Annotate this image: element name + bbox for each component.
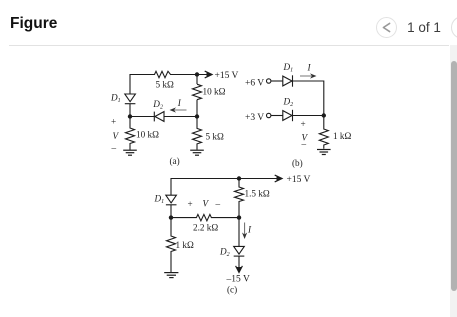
svg-text:(a): (a): [170, 156, 180, 166]
resistor 1k (b): [319, 116, 328, 149]
svg-text:I: I: [177, 98, 182, 108]
resistor 1.5k (c): [235, 179, 244, 218]
node dot c left: [169, 215, 173, 219]
diode D2 (a): [154, 112, 164, 122]
ground (a left): [123, 150, 137, 155]
wire a: right branch upper: [196, 75, 198, 85]
resistor 10k right vertical: [193, 84, 202, 100]
node dot c right: [237, 215, 241, 219]
wire b row1: [271, 80, 283, 82]
wire a: top to +15V arrow: [172, 74, 209, 76]
wire a: right branch to middle node: [196, 100, 198, 117]
svg-text:–: –: [215, 199, 221, 209]
wire c: D2 to -15V arrow: [238, 256, 240, 269]
svg-text:–15 V: –15 V: [226, 275, 250, 285]
+15V arrowhead (c): [275, 175, 282, 182]
resistor R 5k horizontal: [153, 71, 172, 77]
current arrow I (a): [170, 107, 187, 112]
current arrow I (c): [242, 223, 247, 240]
svg-text:V: V: [113, 131, 120, 141]
scrollbar thumb: [451, 61, 457, 291]
svg-text:D2: D2: [219, 247, 230, 259]
node dot a right middle: [195, 114, 199, 118]
labels circuit a: [110, 71, 239, 166]
wire a: middle horizontal left part: [130, 116, 154, 118]
svg-text:+3 V: +3 V: [245, 113, 264, 123]
next button (clipped at right edge): [451, 16, 457, 39]
svg-text:D1: D1: [154, 194, 165, 206]
wire c: top: [171, 179, 279, 196]
svg-text:–: –: [111, 143, 117, 153]
node dot a left middle: [128, 114, 132, 118]
diode D1 (b): [283, 76, 292, 86]
svg-text:+: +: [301, 119, 306, 129]
ground (c): [164, 273, 178, 278]
svg-text:+15 V: +15 V: [287, 175, 311, 185]
svg-text:5 kΩ: 5 kΩ: [156, 80, 174, 90]
resistor 5k right lower vertical: [193, 117, 202, 150]
ground (a right): [190, 150, 204, 155]
page counter: [406, 20, 442, 35]
wire b row2: [271, 115, 283, 117]
svg-text:10 kΩ: 10 kΩ: [136, 130, 159, 140]
svg-text:+: +: [111, 117, 116, 127]
header title: [10, 15, 57, 33]
svg-text:D1: D1: [283, 62, 294, 74]
-15V arrowhead (c): [236, 266, 243, 273]
prev button: [376, 17, 397, 38]
terminal +3V: [267, 113, 271, 117]
left lower branch: resistor 1k (c): [167, 218, 176, 273]
node dot b: [322, 113, 326, 117]
svg-text:I: I: [247, 225, 252, 235]
+15V arrowhead (a): [205, 71, 212, 78]
diode D2 (c): [234, 246, 245, 254]
labels circuit b: [245, 62, 351, 168]
svg-text:–: –: [301, 139, 307, 149]
svg-text:1 kΩ: 1 kΩ: [333, 131, 351, 141]
diode D1 (a): [125, 94, 136, 117]
svg-text:5 kΩ: 5 kΩ: [206, 132, 224, 142]
labels circuit c: [154, 175, 311, 295]
svg-text:+6 V: +6 V: [245, 79, 264, 89]
svg-text:2.2 kΩ: 2.2 kΩ: [193, 222, 218, 232]
svg-text:(c): (c): [227, 285, 237, 295]
diode D1 (c): [166, 195, 177, 203]
wire b row1 right + corner down: [293, 81, 324, 116]
svg-text:V: V: [203, 199, 210, 209]
node dot a top: [195, 72, 199, 76]
svg-text:1.5 kΩ: 1.5 kΩ: [245, 189, 270, 199]
svg-text:(b): (b): [292, 158, 303, 168]
node dot c top: [237, 176, 241, 180]
scrollbar track: [450, 45, 457, 317]
header divider: [9, 45, 449, 47]
svg-text:I: I: [307, 63, 312, 73]
ground (b): [317, 150, 331, 155]
current arrow I (b): [300, 73, 317, 78]
terminal +6V: [267, 79, 271, 83]
wire c: middle row + resistor 2.2k: [171, 214, 239, 220]
wire a: left lower branch with resistor 10k: [126, 117, 135, 150]
svg-text:+: +: [188, 199, 193, 209]
wire c: right node down to D2: [238, 218, 240, 247]
svg-text:D2: D2: [283, 97, 294, 109]
wire a: top left vertical: [130, 75, 153, 95]
diode D2 (b): [283, 111, 292, 121]
svg-text:D2: D2: [152, 99, 163, 111]
svg-text:+15 V: +15 V: [215, 71, 239, 81]
svg-text:10 kΩ: 10 kΩ: [203, 87, 226, 97]
wire a: middle horizontal right part: [164, 116, 197, 118]
svg-text:1 kΩ: 1 kΩ: [176, 240, 194, 250]
svg-text:D1: D1: [110, 93, 121, 105]
wire b row2 right: [293, 115, 324, 117]
